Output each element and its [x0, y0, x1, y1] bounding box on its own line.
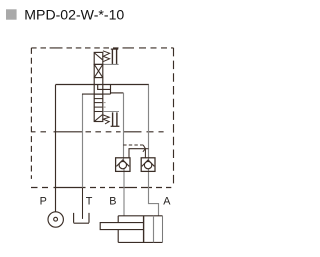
title bullet square: [6, 9, 17, 19]
svg-text:P: P: [40, 196, 47, 208]
valve U2 rung4 shelf extension: [103, 111, 119, 113]
valve U1 spring top: [103, 51, 110, 62]
valve U2 bottom cell arrow: [95, 115, 103, 122]
wire A feed lower with jog: [149, 169, 159, 216]
check valve CV1 poppet circle: [119, 161, 126, 168]
svg-text:T: T: [86, 196, 93, 208]
pilot line dashed from B to right check valve: [123, 144, 143, 146]
svg-text:A: A: [163, 196, 171, 208]
node tick jog: [98, 85, 111, 90]
pilot line bend diagonal: [143, 145, 145, 149]
valve U1 X diagonal 1: [95, 65, 103, 77]
wire pressure line A (horizontal): [56, 84, 149, 86]
valve U1 position box 2 with X: [94, 64, 103, 77]
wire A feed upper: [148, 85, 150, 162]
valve U2 seat bars bottom (cup shape): [113, 112, 117, 126]
valve U1 X diagonal 2: [95, 65, 103, 77]
cylinder piston line 1: [143, 216, 145, 243]
wire T riser gray: [82, 94, 84, 187]
wire B feed lower: [123, 169, 125, 216]
cylinder piston line 2: [153, 216, 155, 243]
valve U2 rung 4: [94, 111, 103, 113]
valve U1 body sides below box2: [94, 78, 103, 95]
pilot drop into right check valve: [144, 149, 146, 158]
valve U2 stacked body: [94, 94, 103, 121]
wire to B check valve: [111, 92, 124, 94]
check valve CV1 seat chevron: [116, 160, 129, 167]
dashed enclosure border top: [31, 47, 173, 49]
pilot crossing hop mark: [143, 148, 146, 152]
valve U1 box1 internal arrow: [95, 53, 103, 60]
dashed enclosure border bottom: [31, 187, 171, 189]
valve U2 rung 2: [94, 102, 103, 104]
valve U1 position box 1: [94, 52, 103, 64]
cylinder rod: [100, 223, 143, 230]
wire tank line W5 (horizontal): [82, 93, 111, 95]
pilot line from A to left check valve: [129, 149, 145, 158]
dashed enclosure border right: [173, 48, 175, 188]
check valve CV2 seat chevron: [142, 160, 155, 167]
wire B feed upper: [123, 93, 125, 162]
valve U1 seat bars top (pi shape): [111, 48, 118, 50]
node junction riser V1: [110, 85, 112, 94]
svg-text:B: B: [109, 196, 116, 208]
cylinder barrel left edge upper: [117, 216, 119, 223]
pilot line stub to A riser: [146, 148, 149, 150]
valve U2 spring bottom: [103, 115, 109, 124]
wire P riser: [55, 85, 57, 212]
cylinder barrel bottom: [118, 241, 162, 243]
check valve CV2 (A line) box: [141, 158, 155, 172]
valve U1 box1 bottom shelf extension: [103, 63, 119, 65]
pressure source inner dot: [54, 217, 58, 221]
tank symbol: [74, 213, 89, 223]
check valve CV1 (B line) box: [116, 158, 130, 172]
svg-text:MPD-02-W-*-10: MPD-02-W-*-10: [24, 7, 124, 23]
valve U2 rung 1: [94, 98, 103, 100]
wire T below border: [82, 188, 84, 219]
dashed enclosure border left: [30, 48, 32, 179]
cylinder barrel left edge lower: [117, 230, 119, 243]
cylinder barrel top: [118, 215, 162, 217]
cylinder barrel right edge: [162, 216, 164, 243]
check valve CV2 poppet circle: [144, 161, 151, 168]
pressure source circle: [48, 212, 63, 227]
dashed layer divider: [31, 131, 163, 133]
valve U2 rung 3: [94, 106, 103, 108]
